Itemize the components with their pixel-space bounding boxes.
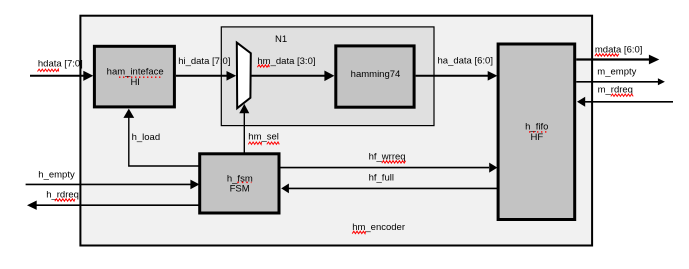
block ham_inteface HI [94,46,174,107]
svg-text:m_empty: m_empty [597,67,636,78]
svg-text:hm_sel: hm_sel [248,132,279,143]
arrowhead m_empty [658,78,665,85]
spellcheck squiggle mdata [595,54,619,56]
arrowhead h_rdreq pointing left [27,201,37,210]
svg-text:HF: HF [530,132,543,143]
svg-text:hf_full: hf_full [369,173,394,184]
block h_fifo HF [498,44,575,220]
svg-text:hdata [7:0]: hdata [7:0] [38,58,83,69]
svg-text:ham_inteface: ham_inteface [107,67,164,78]
svg-text:N1: N1 [275,34,287,45]
spellcheck squiggle hm [352,231,365,233]
wire h_empty input [26,183,192,185]
spellcheck dots under h_fsm [237,181,251,183]
spellcheck squiggle sel [267,142,280,144]
arrowhead m_rdreq into h_fifo [577,97,585,107]
arrowhead hf_wrreq into h_fifo [489,163,497,173]
wire m_rdreq input [585,101,674,103]
svg-text:HI: HI [130,77,140,88]
wire hf_full from h_fifo to h_fsm [289,187,498,189]
arrowhead hi_data into mux [227,71,237,81]
arrowhead h_load into ham_inteface bottom [123,109,134,118]
arrowhead ha_data into h_fifo [488,71,498,81]
svg-text:ha_data [6:0]: ha_data [6:0] [438,55,493,66]
svg-text:hi_data [7:0]: hi_data [7:0] [178,56,230,67]
spellcheck squiggle rdreq [611,94,633,96]
wire h_load from h_fsm to ham_inteface [129,113,200,167]
spellcheck dots under h_fifo [529,131,548,133]
svg-text:hamming74: hamming74 [351,69,401,80]
wire m_empty output [576,81,658,83]
arrowhead hf_full into h_fsm [281,184,289,194]
mux (multiplexer trapezoid) [237,43,251,109]
arrowhead h_empty into h_fsm [190,180,199,190]
svg-text:FSM: FSM [230,184,250,195]
svg-text:h_load: h_load [132,132,161,143]
wire h_rdreq output [36,204,200,206]
spellcheck dots under ham_inteface [119,76,162,78]
block h_fsm FSM [200,154,279,213]
spellcheck squiggle hm [248,142,261,144]
wire ha_data [416,75,489,77]
spellcheck squiggle rdreq [55,199,75,201]
spellcheck squiggle hdata [38,69,59,71]
wire hi_data [176,75,228,77]
arrowhead mdata [649,55,659,65]
block hamming74 [336,46,414,107]
wire hdata [30,75,84,77]
arrowhead hm_data into hamming74 [324,71,334,82]
arrowhead hdata into ham_inteface [83,71,93,81]
inner group box N1 [221,27,434,126]
wire hm_data [250,75,325,77]
wire mdata output [576,58,650,60]
spellcheck squiggle hm [257,65,269,67]
arrowhead hm_sel into mux bottom [239,104,249,113]
outer block hm_encoder boundary [80,16,592,246]
wire hm_sel from h_fsm to mux [243,112,245,153]
spellcheck squiggle wrreq [382,161,406,163]
wire hf_wrreq from h_fsm to h_fifo [280,167,489,169]
svg-text:h_fifo: h_fifo [525,121,548,132]
svg-text:h_empty: h_empty [38,169,75,180]
